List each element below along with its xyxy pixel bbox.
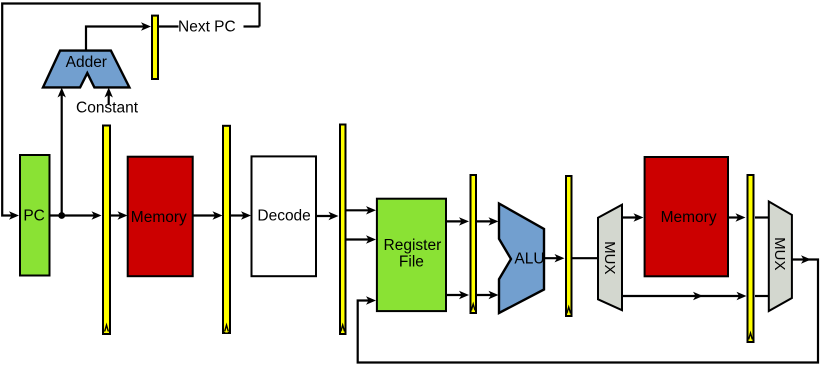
register 1 clock chevron bbox=[104, 323, 109, 332]
arrow into register file input 1 bbox=[366, 206, 376, 214]
wire: adder output up and right to NextPC register bbox=[86, 27, 147, 51]
PC box bbox=[20, 155, 50, 276]
pipeline register 2 bbox=[223, 126, 230, 333]
svg-text:Register: Register bbox=[384, 237, 442, 254]
wire: MUX 1 to data memory bbox=[622, 216, 640, 218]
wire: register 2 to decode bbox=[231, 214, 247, 216]
wire: decode to register 3 bbox=[317, 215, 335, 217]
pipeline register 3 bbox=[340, 125, 346, 335]
wire: MUX 1 bypass under data memory to register 6 bbox=[622, 295, 743, 297]
wire: register file output 2 to register 4 bbox=[447, 294, 466, 296]
wire: next-pc feedback loop (top and left edges into PC) bbox=[2, 4, 259, 216]
wire: MUX 2 output writeback loop to register file bbox=[358, 260, 818, 363]
ALU bbox=[499, 204, 544, 314]
arrow into register 4 lower bbox=[459, 291, 469, 299]
instruction memory box bbox=[128, 157, 193, 277]
svg-text:Adder: Adder bbox=[66, 54, 107, 71]
arrow into ALU input 2 bbox=[489, 291, 499, 299]
pipeline register 6 bbox=[748, 175, 754, 342]
arrow into data memory bbox=[634, 213, 644, 221]
arrow into register 6 lower bbox=[737, 292, 747, 300]
arrow into NextPC register bbox=[141, 22, 151, 30]
wire: junction up to adder input bbox=[61, 92, 63, 216]
pipeline register 5 bbox=[566, 176, 572, 316]
register 6 clock chevron bbox=[748, 331, 753, 340]
arrow up into adder input 2 (constant) bbox=[105, 88, 113, 98]
arrow on MUX 2 output bbox=[801, 255, 811, 263]
wire: label to loop corner bbox=[244, 25, 260, 27]
arrow into register 3 bbox=[329, 212, 339, 220]
wire: PC output to pipeline register 1 bbox=[51, 214, 99, 216]
svg-text:PC: PC bbox=[23, 207, 45, 224]
register 5 clock chevron bbox=[566, 305, 571, 314]
register 2 clock chevron bbox=[224, 323, 229, 332]
arrow into register file write port bbox=[366, 296, 376, 304]
arrow into instruction memory bbox=[118, 211, 128, 219]
register 3 clock chevron bbox=[340, 323, 345, 332]
wire: register 3 to register file input 1 bbox=[347, 209, 373, 211]
svg-text:Memory: Memory bbox=[661, 209, 717, 226]
wire: constant stub to adder input bbox=[108, 92, 110, 104]
wire: ALU output to register 5 bbox=[544, 257, 561, 259]
wire: instruction memory to register 2 bbox=[194, 214, 220, 216]
pipeline register 4 bbox=[471, 175, 477, 313]
data memory box bbox=[645, 157, 728, 276]
svg-text:MUX: MUX bbox=[601, 241, 618, 274]
arrow into ALU input 1 bbox=[489, 217, 499, 225]
arrow into register 1 bbox=[92, 211, 102, 219]
arrowheads bbox=[9, 22, 811, 304]
wire: register 3 to register file input 2 bbox=[347, 238, 373, 240]
wire: register 6 to MUX 2 lower bbox=[755, 295, 769, 297]
arrow into register file input 2 bbox=[366, 235, 376, 243]
adder bbox=[43, 51, 129, 88]
svg-text:Decode: Decode bbox=[257, 208, 310, 225]
NextPC pipeline register bbox=[152, 16, 158, 79]
svg-text:File: File bbox=[399, 253, 424, 270]
svg-text:Memory: Memory bbox=[131, 209, 187, 226]
register 4 clock chevron bbox=[471, 302, 476, 311]
svg-text:Next PC: Next PC bbox=[178, 19, 236, 36]
arrow into register 2 bbox=[213, 211, 223, 219]
wire: register 4 to ALU input 2 bbox=[477, 294, 495, 296]
wire: register 6 to MUX 2 upper bbox=[755, 216, 769, 218]
pipeline register 1 bbox=[103, 126, 110, 335]
arrow into PC bbox=[9, 211, 19, 219]
svg-text:MUX: MUX bbox=[771, 237, 788, 270]
svg-text:Constant: Constant bbox=[76, 100, 139, 117]
junction node at PC output bbox=[58, 212, 65, 219]
wire: register 1 to instruction memory bbox=[111, 214, 124, 216]
MUX 2 bbox=[769, 202, 792, 312]
wire: data memory to register 6 bbox=[729, 216, 742, 218]
wire: NextPC register output to label bbox=[159, 25, 179, 27]
arrow into decode bbox=[241, 211, 251, 219]
wire: register file output 1 to register 4 bbox=[447, 220, 466, 222]
wire: register 4 to ALU input 1 bbox=[477, 220, 495, 222]
arrow up into adder input 1 bbox=[58, 88, 66, 98]
arrow into register 5 bbox=[555, 254, 565, 262]
register file box bbox=[377, 199, 446, 311]
decode box bbox=[252, 156, 317, 276]
arrow into register 4 upper bbox=[459, 217, 469, 225]
svg-text:ALU: ALU bbox=[514, 251, 544, 268]
arrow mid bypass wire bbox=[693, 292, 703, 300]
arrow into register 6 upper bbox=[736, 213, 746, 221]
MUX 1 bbox=[598, 205, 622, 311]
wire: register 5 to MUX 1 bbox=[573, 257, 599, 259]
